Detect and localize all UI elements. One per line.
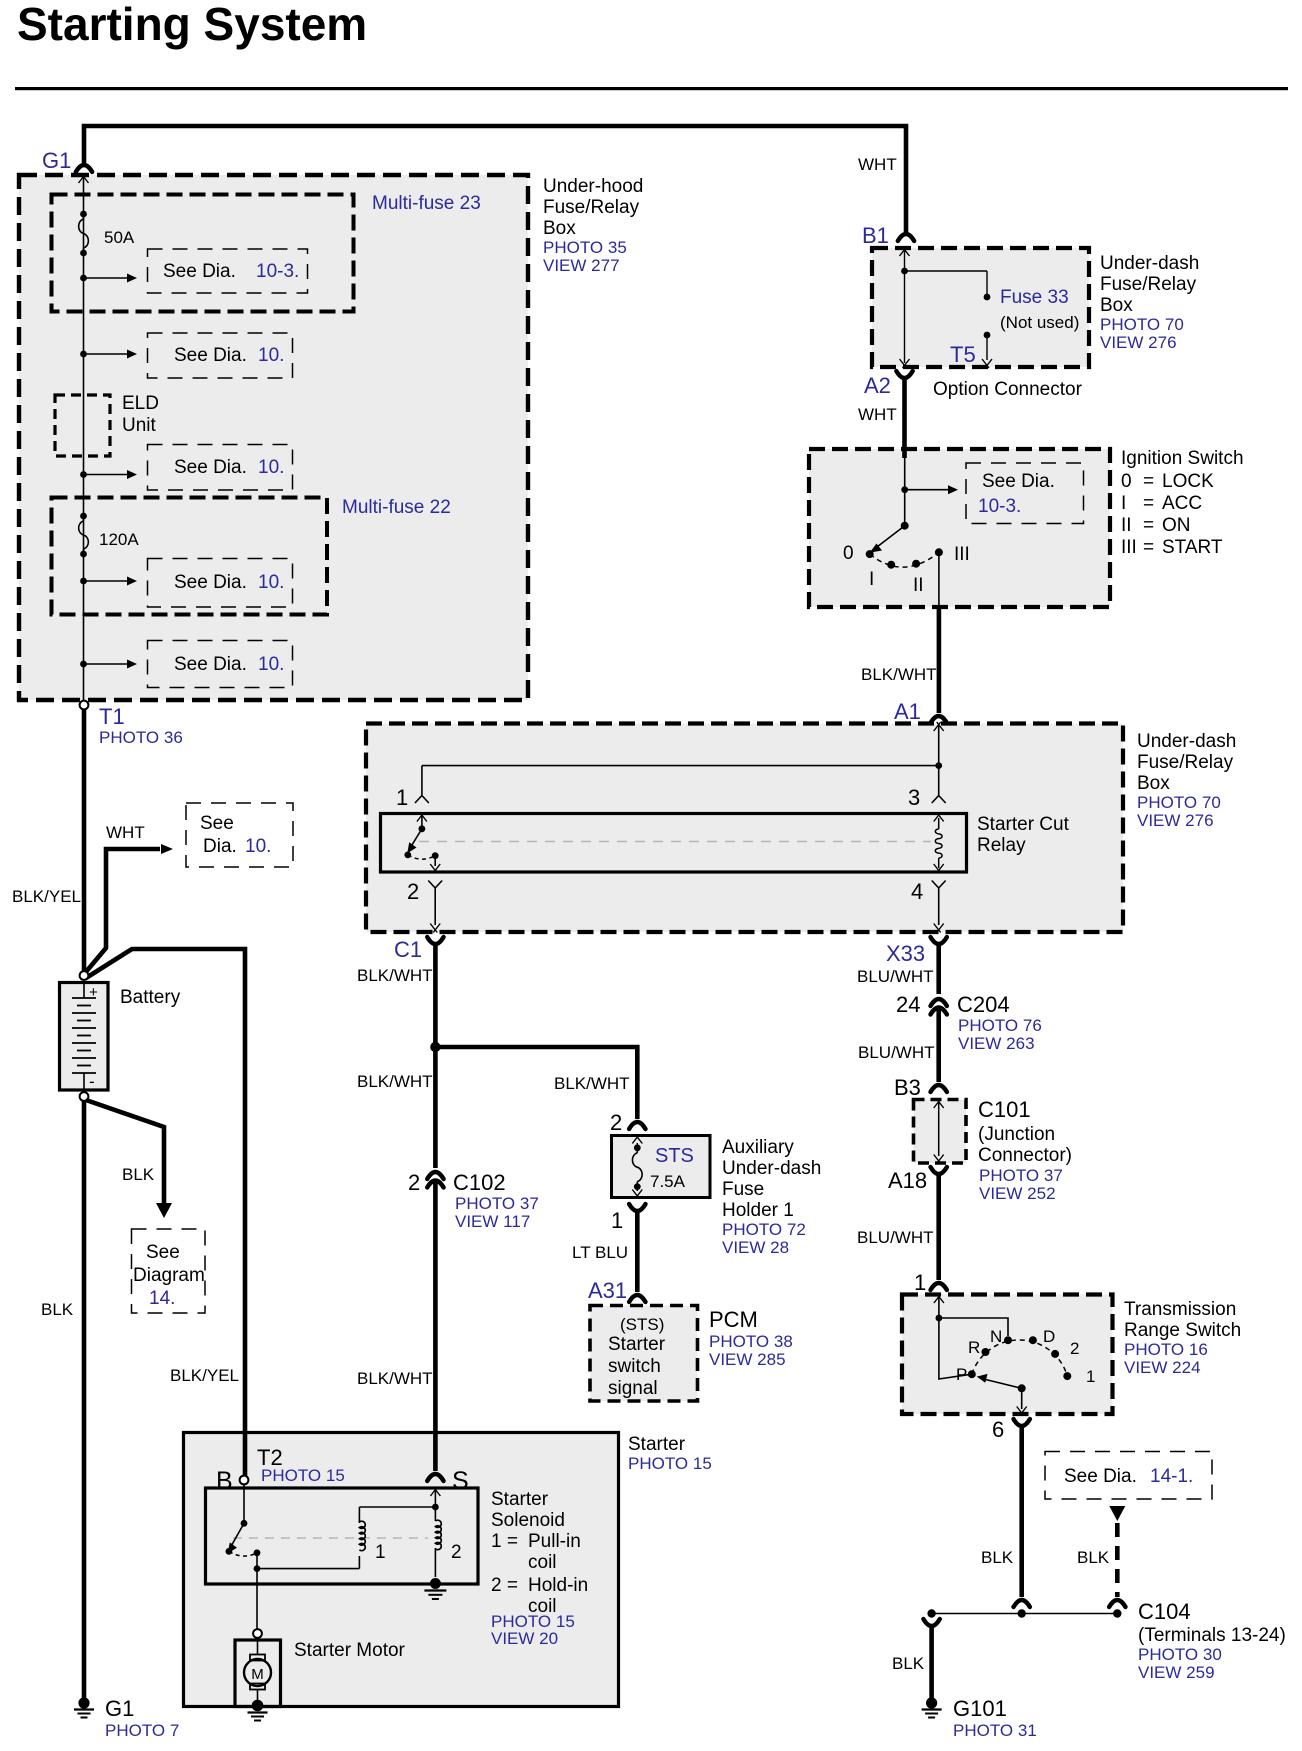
svg-text:See Dia.: See Dia. [174, 345, 247, 366]
svg-text:Hold-in: Hold-in [528, 1575, 588, 1596]
fuse 33 lower lead / T5 [984, 332, 991, 339]
svg-text:LT BLU: LT BLU [572, 1243, 628, 1262]
solenoid ground [430, 1578, 441, 1589]
svg-text:R: R [968, 1338, 980, 1357]
svg-text:coil: coil [528, 1552, 557, 1573]
wire G1 to B1 (WHT) [84, 126, 906, 232]
svg-text:(Not used): (Not used) [1000, 313, 1079, 332]
svg-text:BLK: BLK [981, 1548, 1014, 1567]
wire to P contact [939, 1318, 972, 1379]
see diagram 14. box [132, 1229, 206, 1313]
starter solenoid box [206, 1488, 479, 1584]
svg-text:B1: B1 [862, 223, 889, 248]
svg-text:Ignition Switch: Ignition Switch [1121, 448, 1244, 469]
svg-text:See: See [200, 813, 234, 834]
trans switch entry [934, 1294, 944, 1303]
wire solenoid to starter motor [256, 1569, 258, 1629]
see dia. 10. box 4 [148, 559, 293, 608]
svg-text:Box: Box [1100, 295, 1133, 316]
branch arrow to See Dia. 10. (fourth) [80, 578, 87, 585]
svg-text:VIEW 252: VIEW 252 [979, 1184, 1056, 1203]
arrow from see dia 14-1 [1109, 1506, 1125, 1521]
svg-text:Holder 1: Holder 1 [722, 1200, 794, 1221]
svg-text:2: 2 [407, 879, 419, 904]
svg-text:III: III [954, 544, 970, 565]
wire X33 to C204 (BLU/WHT) [936, 946, 941, 994]
multi-fuse 23 box [52, 195, 354, 312]
svg-text:I: I [1121, 493, 1126, 514]
branch arrow to See Dia. 10. (second) [80, 351, 87, 358]
svg-text:WHT: WHT [858, 155, 897, 174]
wire A18 to transmission range switch (BLU/WHT) [936, 1174, 941, 1280]
svg-text:(Terminals 13-24): (Terminals 13-24) [1138, 1625, 1286, 1646]
wire to relay pin 1 [422, 765, 939, 767]
svg-text:2 =: 2 = [491, 1575, 518, 1596]
svg-text:BLK: BLK [892, 1654, 925, 1673]
svg-text:2: 2 [408, 1170, 420, 1195]
branch arrow to See Dia. 10-3. [80, 275, 87, 282]
svg-text:1: 1 [375, 1542, 386, 1563]
relay coil [938, 818, 940, 829]
svg-text:50A: 50A [104, 228, 135, 247]
relay pin 3 [938, 766, 940, 795]
svg-text:14-1.: 14-1. [1150, 1466, 1193, 1487]
transmission range switch box [902, 1295, 1113, 1415]
svg-text:WHT: WHT [106, 823, 145, 842]
svg-text:PHOTO 76: PHOTO 76 [958, 1016, 1042, 1035]
under-dash fuse/relay box (fuse 33) [872, 248, 1089, 367]
wire C104 to G101 (BLK) [923, 1619, 939, 1626]
solenoid mechanical link (dashed) [233, 1537, 428, 1539]
svg-text:PHOTO 35: PHOTO 35 [543, 238, 627, 257]
svg-text:M: M [251, 1666, 264, 1683]
svg-text:VIEW 20: VIEW 20 [491, 1629, 558, 1648]
pin 6 [1014, 1419, 1030, 1426]
see dia. 10. box 2 [148, 333, 293, 378]
arrow to see dia. 10-3. [905, 489, 950, 491]
svg-text:VIEW 277: VIEW 277 [543, 256, 620, 275]
connector A31 [629, 1295, 645, 1302]
see dia. 14-1. box [1045, 1452, 1212, 1500]
svg-text:1: 1 [1086, 1367, 1095, 1386]
wire junction to STS fuse (BLK/WHT) [435, 1047, 637, 1119]
see dia. 10. box 5 [148, 641, 293, 688]
svg-text:VIEW 224: VIEW 224 [1124, 1358, 1201, 1377]
branch arrow to See Dia. 10. (third) [80, 471, 87, 478]
svg-text:Starter: Starter [491, 1489, 549, 1510]
svg-text:See Dia.: See Dia. [174, 572, 247, 593]
starter box [184, 1433, 619, 1707]
connector A18 [931, 1167, 947, 1174]
svg-text:P: P [956, 1365, 967, 1384]
svg-text:III: III [1121, 537, 1137, 558]
svg-text:Fuse/Relay: Fuse/Relay [1137, 752, 1234, 773]
svg-text:Under-dash: Under-dash [1100, 253, 1199, 274]
svg-text:A18: A18 [888, 1168, 927, 1193]
battery terminal top [80, 971, 89, 980]
svg-text:24: 24 [896, 992, 920, 1017]
svg-text:(STS): (STS) [620, 1315, 664, 1334]
svg-text:Fuse/Relay: Fuse/Relay [543, 197, 640, 218]
C101 junction connector interior [934, 1099, 944, 1108]
svg-text:4: 4 [911, 879, 923, 904]
svg-text:BLU/WHT: BLU/WHT [857, 1228, 934, 1247]
S wire into solenoid [430, 1487, 440, 1496]
svg-text:10.: 10. [258, 345, 284, 366]
svg-text:10.: 10. [258, 457, 284, 478]
svg-text:7.5A: 7.5A [650, 1172, 686, 1191]
fuse STS 7.5A [634, 1144, 641, 1151]
svg-text:2: 2 [1070, 1339, 1079, 1358]
relay mechanical link (dashed) [419, 841, 931, 843]
svg-text:PHOTO 70: PHOTO 70 [1100, 315, 1184, 334]
relay pin 4 [934, 864, 944, 873]
svg-text:PCM: PCM [709, 1307, 758, 1332]
see dia. 10-3. box [148, 249, 308, 293]
svg-text:PHOTO 15: PHOTO 15 [628, 1454, 712, 1473]
wire C1 down (BLK/WHT) [433, 946, 438, 1168]
connector A2 [896, 371, 912, 378]
svg-text:-: - [89, 1072, 95, 1091]
svg-text:=: = [1143, 537, 1154, 558]
svg-text:BLK/YEL: BLK/YEL [12, 887, 81, 906]
svg-text:T5: T5 [950, 342, 976, 367]
branch WHT to see dia 10 [85, 849, 160, 973]
svg-text:Multi-fuse 23: Multi-fuse 23 [372, 193, 481, 214]
svg-text:II: II [913, 575, 924, 596]
connector A1 [931, 716, 947, 723]
svg-text:BLK: BLK [1077, 1548, 1110, 1567]
connector C1 [427, 937, 443, 944]
svg-text:Unit: Unit [122, 415, 157, 436]
svg-text:II: II [1121, 515, 1132, 536]
svg-text:C101: C101 [978, 1097, 1031, 1122]
see dia. 10. box 3 [148, 445, 293, 491]
wire pin 6 down (BLK) [1019, 1428, 1024, 1597]
svg-text:switch: switch [608, 1356, 661, 1377]
solenoid switch [243, 1484, 245, 1523]
svg-text:6: 6 [992, 1417, 1004, 1442]
svg-text:See Dia.: See Dia. [163, 261, 236, 282]
connector C204 pin 24 [931, 999, 947, 1006]
svg-text:VIEW 263: VIEW 263 [958, 1034, 1035, 1053]
svg-text:BLK/WHT: BLK/WHT [554, 1074, 630, 1093]
svg-text:BLK: BLK [41, 1300, 74, 1319]
svg-text:PHOTO 38: PHOTO 38 [709, 1332, 793, 1351]
svg-text:Dia.: Dia. [203, 836, 237, 857]
svg-text:N: N [990, 1327, 1002, 1346]
svg-text:Multi-fuse 22: Multi-fuse 22 [342, 497, 451, 518]
svg-text:10-3.: 10-3. [978, 496, 1021, 517]
svg-text:See Dia.: See Dia. [982, 471, 1055, 492]
svg-text:WHT: WHT [858, 405, 897, 424]
PCM box [590, 1306, 698, 1402]
svg-text:Fuse 33: Fuse 33 [1000, 287, 1069, 308]
svg-text:Box: Box [1137, 773, 1170, 794]
terminal S [427, 1474, 443, 1481]
svg-text:G1: G1 [42, 148, 71, 173]
svg-text:Starting System: Starting System [17, 0, 367, 50]
battery [60, 983, 109, 1091]
svg-text:PHOTO 37: PHOTO 37 [979, 1166, 1063, 1185]
wire T1 to battery (BLK/YEL) [82, 709, 87, 971]
svg-text:BLK: BLK [122, 1165, 155, 1184]
svg-text:S: S [452, 1467, 469, 1495]
fuse 50A [80, 211, 87, 218]
connector B1 [898, 234, 914, 241]
svg-text:C104: C104 [1138, 1599, 1191, 1624]
svg-text:Auxiliary: Auxiliary [722, 1137, 794, 1158]
multi-fuse 22 box [52, 498, 328, 615]
svg-text:C1: C1 [394, 937, 422, 962]
svg-text:VIEW 276: VIEW 276 [1137, 811, 1214, 830]
svg-text:PHOTO 30: PHOTO 30 [1138, 1645, 1222, 1664]
junction node [430, 1042, 440, 1052]
svg-text:Pull-in: Pull-in [528, 1531, 581, 1552]
svg-text:120A: 120A [99, 530, 139, 549]
see dia. 10. box (battery) [186, 803, 293, 867]
svg-text:PHOTO 15: PHOTO 15 [261, 1466, 345, 1485]
wire wiper to pin 6 [1021, 1388, 1023, 1409]
svg-text:A1: A1 [894, 699, 921, 724]
svg-text:signal: signal [608, 1378, 658, 1399]
svg-text:Connector): Connector) [978, 1145, 1072, 1166]
wiper arm [1018, 1384, 1026, 1392]
svg-text:D: D [1043, 1327, 1055, 1346]
svg-text:BLK/WHT: BLK/WHT [357, 966, 433, 985]
svg-text:PHOTO 16: PHOTO 16 [1124, 1340, 1208, 1359]
svg-text:10-3.: 10-3. [256, 261, 299, 282]
svg-text:LOCK: LOCK [1162, 471, 1214, 492]
wire B1 through box [900, 247, 910, 256]
svg-text:See Dia.: See Dia. [1064, 1466, 1137, 1487]
svg-text:Solenoid: Solenoid [491, 1510, 565, 1531]
contacts P R N D 2 1 [968, 1370, 976, 1378]
svg-text:1: 1 [914, 1270, 926, 1295]
dashed wire (BLK) to C104 [1115, 1523, 1120, 1597]
svg-text:PHOTO 37: PHOTO 37 [455, 1194, 539, 1213]
ignition switch box [809, 449, 1110, 607]
svg-text:X33: X33 [886, 941, 925, 966]
svg-text:Battery: Battery [120, 987, 181, 1008]
battery terminal bottom [80, 1092, 89, 1101]
svg-text:I: I [869, 569, 874, 590]
branch to starter B (BLK/YEL) [86, 949, 245, 1476]
hold-in coil 2 [434, 1507, 436, 1521]
ELD unit box [55, 395, 110, 456]
under-dash fuse/relay box (starter cut relay) [366, 724, 1123, 933]
terminal B [240, 1476, 249, 1485]
svg-text:PHOTO 7: PHOTO 7 [105, 1721, 179, 1740]
wire ignition to A1 (BLK/WHT) [937, 605, 942, 713]
svg-text:VIEW 117: VIEW 117 [455, 1212, 530, 1231]
svg-text:C102: C102 [453, 1170, 506, 1195]
relay switch contact [421, 815, 423, 829]
svg-text:10.: 10. [258, 654, 284, 675]
pin 1 transmission range switch [931, 1283, 947, 1290]
svg-text:BLU/WHT: BLU/WHT [857, 967, 934, 986]
svg-text:Under-dash: Under-dash [1137, 731, 1236, 752]
ground G1 bottom [78, 1697, 89, 1708]
wire C204 to B3 (BLU/WHT) [936, 1007, 941, 1082]
branch to see diagram 14 (BLK) [86, 1100, 164, 1203]
svg-text:=: = [1143, 471, 1154, 492]
motor ground [252, 1700, 264, 1712]
svg-text:VIEW 259: VIEW 259 [1138, 1663, 1215, 1682]
wire III to box edge [938, 552, 940, 605]
STS fuse holder box [612, 1136, 711, 1198]
svg-text:=: = [1143, 515, 1154, 536]
svg-text:Under-hood: Under-hood [543, 176, 643, 197]
wire to fuse 33 [905, 270, 988, 272]
ignition contacts 0 I II III [866, 550, 874, 558]
title rule [15, 87, 1288, 90]
A1 entry arrow [934, 722, 944, 731]
fuse 120A [80, 513, 87, 520]
svg-text:STS: STS [655, 1145, 694, 1167]
connector T1 [80, 701, 89, 710]
svg-text:See: See [146, 1242, 180, 1263]
wire to N contact [939, 1318, 1008, 1336]
svg-text:Fuse/Relay: Fuse/Relay [1100, 274, 1197, 295]
svg-text:Starter Motor: Starter Motor [294, 1640, 406, 1661]
svg-text:1 =: 1 = [491, 1531, 518, 1552]
svg-text:Transmission: Transmission [1124, 1299, 1236, 1320]
svg-text:B: B [216, 1467, 233, 1495]
connector X33 [931, 937, 947, 944]
svg-text:T1: T1 [99, 704, 125, 729]
wire STS to A31 (LT BLU) [635, 1213, 640, 1292]
STS pin 2 [629, 1122, 645, 1129]
connector B3 [931, 1085, 947, 1092]
svg-text:Starter: Starter [608, 1334, 666, 1355]
svg-text:BLK/WHT: BLK/WHT [357, 1369, 433, 1388]
STS pin 1 [629, 1204, 645, 1211]
svg-text:Relay: Relay [977, 835, 1026, 856]
svg-text:C204: C204 [957, 992, 1010, 1017]
svg-text:PHOTO 72: PHOTO 72 [722, 1220, 806, 1239]
svg-text:BLU/WHT: BLU/WHT [858, 1043, 935, 1062]
svg-text:0: 0 [843, 543, 854, 564]
svg-text:G101: G101 [953, 1696, 1007, 1721]
wire battery to G1 ground (BLK) [82, 1101, 87, 1698]
svg-text:G1: G1 [105, 1696, 134, 1721]
svg-text:Range Switch: Range Switch [1124, 1320, 1241, 1341]
svg-text:VIEW 28: VIEW 28 [722, 1238, 789, 1257]
svg-text:PHOTO 70: PHOTO 70 [1137, 793, 1221, 812]
svg-text:Option Connector: Option Connector [933, 379, 1083, 400]
svg-text:B3: B3 [894, 1075, 921, 1100]
svg-text:10.: 10. [258, 572, 284, 593]
svg-text:2: 2 [451, 1542, 462, 1563]
relay pin 2 [434, 856, 436, 866]
svg-text:BLK/WHT: BLK/WHT [861, 665, 937, 684]
svg-text:A31: A31 [588, 1278, 627, 1303]
svg-text:1: 1 [396, 785, 408, 810]
svg-text:Starter: Starter [628, 1434, 686, 1455]
svg-text:See Dia.: See Dia. [174, 457, 247, 478]
svg-text:Diagram: Diagram [133, 1265, 205, 1286]
under-hood fuse/relay box [19, 175, 528, 700]
motor M symbol [244, 1659, 271, 1686]
svg-text:PHOTO 31: PHOTO 31 [953, 1721, 1037, 1740]
svg-text:BLK/WHT: BLK/WHT [357, 1072, 433, 1091]
svg-text:=: = [1143, 493, 1154, 514]
starter motor [253, 1629, 262, 1638]
wire C102 to starter S (BLK/WHT) [433, 1180, 438, 1471]
svg-text:3: 3 [908, 785, 920, 810]
svg-text:Fuse: Fuse [722, 1179, 764, 1200]
svg-text:(Junction: (Junction [978, 1124, 1055, 1145]
starter cut relay box [381, 814, 967, 873]
svg-text:2: 2 [610, 1110, 622, 1135]
svg-text:ELD: ELD [122, 393, 159, 414]
junction connector C101 box [914, 1100, 967, 1164]
svg-text:VIEW 285: VIEW 285 [709, 1350, 786, 1369]
svg-text:Starter Cut: Starter Cut [977, 814, 1070, 835]
wire A2 to ignition switch (WHT) [902, 380, 907, 458]
svg-text:VIEW 276: VIEW 276 [1100, 333, 1177, 352]
svg-text:BLK/YEL: BLK/YEL [170, 1366, 239, 1385]
under-hood feed wire [79, 174, 89, 183]
svg-text:ACC: ACC [1162, 493, 1202, 514]
C104 terminal bus [932, 1613, 1118, 1615]
ignition switch interior wire [904, 451, 906, 526]
svg-text:PHOTO 36: PHOTO 36 [99, 728, 183, 747]
connector G1 terminal [76, 165, 92, 172]
svg-text:See Dia.: See Dia. [174, 654, 247, 675]
svg-text:10.: 10. [245, 836, 271, 857]
svg-text:A2: A2 [864, 373, 891, 398]
svg-text:0: 0 [1121, 471, 1132, 492]
svg-text:START: START [1162, 537, 1223, 558]
svg-text:14.: 14. [149, 1288, 175, 1309]
svg-text:1: 1 [611, 1208, 623, 1233]
ground G101 [926, 1697, 937, 1708]
pull-in coil 1 [359, 1506, 435, 1508]
svg-text:Box: Box [543, 218, 576, 239]
connector C102 [427, 1172, 443, 1179]
svg-text:Under-dash: Under-dash [722, 1158, 821, 1179]
branch arrow to See Dia. 10. (fifth) [80, 661, 87, 668]
see dia. 10-3. box (ignition) [966, 463, 1084, 524]
svg-text:ON: ON [1162, 515, 1191, 536]
ignition switch wiper [901, 522, 909, 530]
